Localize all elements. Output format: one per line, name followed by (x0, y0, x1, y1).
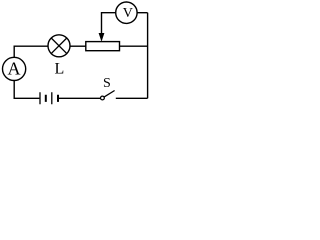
svg-text:L: L (55, 61, 65, 78)
svg-text:A: A (8, 59, 21, 79)
svg-text:V: V (123, 6, 133, 21)
svg-text:S: S (103, 76, 111, 91)
